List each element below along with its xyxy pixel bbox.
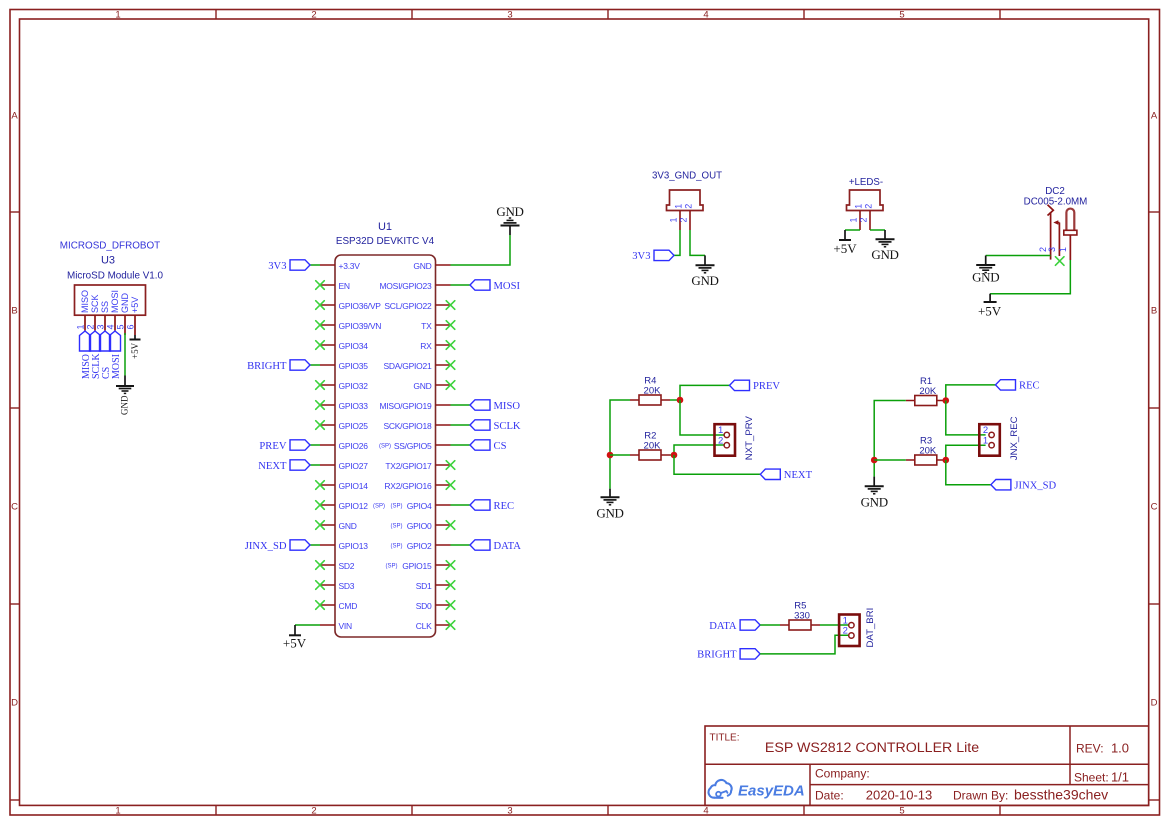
svg-text:GPIO14: GPIO14: [339, 481, 369, 491]
no-connect X on U1 RX right: [446, 341, 455, 350]
svg-text:SCLK: SCLK: [494, 421, 521, 432]
U3 pin 3 SS: [96, 301, 111, 331]
wire U1 GPIO13 to flag: [310, 544, 320, 546]
svg-text:MISO: MISO: [494, 401, 521, 412]
no-connect X on U1 GPIO0 right: [446, 521, 455, 530]
U1 left pin GPIO34: [320, 341, 368, 351]
svg-text:1/1: 1/1: [1111, 770, 1129, 785]
wire R4 junction to NXT_PRV pin1: [680, 400, 724, 435]
net label CS on U3 pin 3: [100, 331, 112, 379]
svg-text:3V3: 3V3: [268, 261, 286, 272]
U3 pin 2 SCK: [86, 294, 101, 330]
svg-text:TX: TX: [421, 321, 432, 331]
wire DC2 pin1 to +5V: [990, 260, 1070, 294]
svg-text:GPIO26: GPIO26: [339, 441, 369, 451]
wire rail to R2: [610, 454, 630, 456]
svg-text:+5V: +5V: [978, 303, 1002, 318]
svg-text:DAT_BRI: DAT_BRI: [865, 608, 876, 648]
wire 3V3_GND_OUT pin1 to 3V3 flag: [674, 230, 680, 255]
svg-text:2: 2: [679, 217, 689, 222]
no-connect X on U1 CMD: [316, 601, 325, 610]
U1 left pin GPIO33: [320, 401, 368, 411]
wire R5 to DAT_BRI pin1: [820, 624, 849, 626]
svg-text:(SP): (SP): [379, 444, 391, 450]
junction R1 right: [943, 397, 950, 404]
no-connect X on U1 RX2/GPIO16 right: [446, 481, 455, 490]
junction rail R3: [871, 457, 878, 464]
svg-text:GPIO12: GPIO12: [339, 501, 369, 511]
wire U1 SCK/GPIO18 to flag: [451, 424, 471, 426]
svg-text:Drawn By:: Drawn By:: [953, 789, 1008, 803]
svg-text:MISO: MISO: [80, 290, 90, 313]
U1 right pin SD1: [416, 581, 451, 591]
svg-text:NEXT: NEXT: [258, 461, 287, 472]
junction rail R2: [607, 452, 614, 459]
wire U1 GPIO27 to flag: [310, 464, 320, 466]
svg-text:EasyEDA: EasyEDA: [738, 782, 805, 799]
wire U1 MISO/GPIO19 to flag: [451, 404, 471, 406]
svg-text:DATA: DATA: [494, 541, 522, 552]
no-connect X on U1 GPIO15 right: [446, 561, 455, 570]
svg-text:A: A: [1151, 110, 1158, 121]
connector +LEDS-: [847, 177, 884, 230]
svg-text:GND: GND: [972, 270, 999, 285]
svg-text:1.0: 1.0: [1111, 741, 1129, 756]
svg-text:(SP): (SP): [373, 504, 385, 510]
connector NXT_PRV: [715, 416, 756, 461]
no-connect X on U1 TX right: [446, 321, 455, 330]
U1 right pin CLK: [416, 621, 451, 631]
svg-text:6: 6: [126, 324, 136, 329]
svg-text:MOSI/GPIO23: MOSI/GPIO23: [379, 281, 432, 291]
svg-text:Company:: Company:: [815, 767, 870, 781]
no-connect X on U1 GPIO12: [316, 501, 325, 510]
U1 right pin TX: [421, 321, 450, 331]
U1 right pin SDA/GPIO21: [383, 361, 450, 371]
U1 right pin GPIO2: [391, 541, 451, 551]
net label SCLK on U3 pin 2: [90, 331, 102, 379]
svg-text:Date:: Date:: [815, 789, 844, 803]
svg-text:2020-10-13: 2020-10-13: [866, 788, 933, 803]
svg-text:ESP32D DEVKITC V4: ESP32D DEVKITC V4: [336, 236, 435, 247]
U1 right pin GND: [413, 261, 450, 271]
no-connect X on U1 SD2: [316, 561, 325, 570]
+5V power symbol on U3 pin6: [130, 335, 141, 359]
svg-text:C: C: [11, 501, 18, 512]
U1 right pin SCL/GPIO22: [384, 301, 450, 311]
U1 left pin GPIO25: [320, 421, 368, 431]
svg-text:JINX_SD: JINX_SD: [1014, 481, 1056, 492]
svg-text:3V3: 3V3: [632, 251, 650, 262]
resistor R5 330: [780, 600, 820, 630]
microsd U3 body: [75, 285, 146, 315]
no-connect X on U1 GND: [316, 521, 325, 530]
svg-text:20K: 20K: [644, 440, 662, 451]
svg-text:4: 4: [703, 10, 708, 21]
wire U1 GPIO4 to flag: [451, 504, 471, 506]
svg-text:GPIO39/VN: GPIO39/VN: [339, 321, 382, 331]
no-connect X on U1 GPIO33: [316, 401, 325, 410]
svg-text:GPIO34: GPIO34: [339, 341, 369, 351]
svg-text:REC: REC: [1019, 381, 1040, 392]
no-connect X on U1 TX2/GPIO17 right: [446, 461, 455, 470]
svg-text:SS/GPIO5: SS/GPIO5: [394, 441, 432, 451]
wire DC2 pin2 to ground: [986, 255, 1051, 257]
wire R1 junction to JNX_REC pin2: [946, 401, 986, 435]
svg-text:5: 5: [899, 10, 904, 21]
U1 left pin GPIO35: [320, 361, 368, 371]
DC2 pin 3 contact: [1047, 220, 1059, 256]
wire BRIGHT to DAT_BRI pin2: [760, 635, 849, 654]
wire rail to R3: [874, 459, 906, 461]
net flag DATA: [470, 540, 521, 552]
svg-text:1: 1: [854, 204, 864, 209]
net flag 3V3: [268, 260, 310, 272]
svg-text:DC005-2.0MM: DC005-2.0MM: [1024, 197, 1088, 208]
svg-text:+5V: +5V: [130, 342, 140, 359]
svg-text:U1: U1: [378, 221, 392, 233]
no-connect X on U1 SD3: [316, 581, 325, 590]
svg-text:MICROSD_DFROBOT: MICROSD_DFROBOT: [60, 240, 160, 251]
junction R2 right: [671, 452, 678, 459]
svg-text:CLK: CLK: [416, 621, 432, 631]
net flag BRIGHT at DAT_BRI: [697, 649, 760, 661]
svg-text:BRIGHT: BRIGHT: [697, 650, 737, 661]
no-connect X on U1 CLK right: [446, 621, 455, 630]
connector 3V3_GND_OUT: [652, 171, 722, 230]
svg-text:1: 1: [1058, 247, 1068, 252]
svg-text:GPIO33: GPIO33: [339, 401, 369, 411]
U1 right pin RX: [420, 341, 450, 351]
svg-text:SD1: SD1: [416, 581, 432, 591]
ground symbol below 3V3_GND_OUT: [691, 255, 718, 288]
svg-text:2: 2: [86, 324, 96, 329]
svg-text:3: 3: [507, 806, 512, 817]
net flag REC at R1: [996, 380, 1040, 392]
svg-text:2: 2: [311, 10, 316, 21]
junction R3 right: [943, 457, 950, 464]
svg-text:GPIO15: GPIO15: [402, 561, 432, 571]
wire ground rail left group: [610, 400, 630, 489]
svg-text:MISO/GPIO19: MISO/GPIO19: [379, 401, 432, 411]
svg-text:GPIO27: GPIO27: [339, 461, 369, 471]
svg-text:MOSI: MOSI: [111, 354, 122, 379]
svg-text:SCK: SCK: [90, 294, 100, 313]
svg-text:GPIO35: GPIO35: [339, 361, 369, 371]
svg-text:GPIO4: GPIO4: [407, 501, 432, 511]
net flag CS: [470, 440, 507, 452]
resistor R1 20K: [906, 376, 946, 406]
wire DATA to R5: [760, 624, 780, 626]
svg-text:2: 2: [311, 806, 316, 817]
svg-text:MOSI: MOSI: [110, 290, 120, 313]
svg-text:GND: GND: [413, 261, 431, 271]
svg-text:Sheet:: Sheet:: [1074, 771, 1109, 785]
wire +LEDS- pin2 to ground: [870, 229, 885, 231]
net flag JINX_SD at R3: [991, 480, 1057, 492]
net flag NEXT: [258, 460, 310, 472]
ground symbol below U3: [116, 376, 134, 416]
resistor R4 20K: [630, 375, 670, 405]
ground symbol at +LEDS-: [871, 230, 898, 262]
resistor R3 20K: [906, 435, 946, 465]
svg-text:3: 3: [1047, 247, 1057, 252]
svg-text:GND: GND: [339, 521, 357, 531]
U1 left pin SD2: [320, 561, 355, 571]
svg-text:GND: GND: [496, 204, 523, 219]
svg-text:1: 1: [115, 806, 120, 817]
svg-text:TITLE:: TITLE:: [710, 733, 740, 744]
U1 left pin SD3: [320, 581, 355, 591]
U1 left pin GPIO26: [320, 441, 368, 451]
wire U1 GPIO2 to flag: [451, 544, 471, 546]
svg-text:NEXT: NEXT: [784, 470, 813, 481]
svg-text:3V3_GND_OUT: 3V3_GND_OUT: [652, 171, 722, 182]
svg-text:GND: GND: [861, 495, 888, 510]
svg-text:MicroSD Module V1.0: MicroSD Module V1.0: [67, 270, 164, 281]
wire 3V3_GND_OUT pin2 to ground: [690, 230, 705, 255]
svg-text:3: 3: [96, 324, 106, 329]
junction R4 right: [677, 397, 684, 404]
U1 right pin GPIO0: [391, 521, 451, 531]
no-connect X on DC2 pin 3: [1055, 257, 1064, 266]
svg-text:1: 1: [115, 10, 120, 21]
svg-text:GND: GND: [120, 293, 130, 314]
svg-text:REV:: REV:: [1076, 742, 1104, 756]
U1 left pin GPIO12: [320, 501, 385, 511]
svg-text:RX: RX: [420, 341, 432, 351]
svg-text:GPIO25: GPIO25: [339, 421, 369, 431]
wire R2 junction to NEXT: [674, 455, 760, 474]
svg-text:CMD: CMD: [339, 601, 358, 611]
svg-text:1: 1: [674, 204, 684, 209]
svg-text:U3: U3: [101, 254, 115, 266]
wire U1 GND to ground symbol: [451, 235, 511, 265]
net flag PREV: [259, 440, 310, 452]
svg-text:GND: GND: [413, 381, 431, 391]
U1 left pin GPIO14: [320, 481, 368, 491]
U1 left pin GPIO36/VP: [320, 301, 381, 311]
wire U3 pin5 to ground: [124, 333, 126, 376]
U3 pin 4 MOSI: [106, 290, 121, 331]
net flag MOSI: [470, 280, 520, 292]
U1 left pin +3.3V: [320, 261, 360, 271]
no-connect X on U1 SDA/GPIO21 right: [446, 361, 455, 370]
svg-text:2: 2: [843, 626, 848, 637]
no-connect X on U1 SD1 right: [446, 581, 455, 590]
svg-text:SDA/GPIO21: SDA/GPIO21: [383, 361, 432, 371]
U1 left pin GPIO32: [320, 381, 368, 391]
svg-text:1: 1: [983, 435, 988, 446]
U3 pin 1 MISO: [76, 290, 91, 331]
svg-text:GPIO32: GPIO32: [339, 381, 369, 391]
wire R4 right to PREV: [670, 385, 730, 400]
net flag SCLK: [470, 420, 521, 432]
wire R3 junction to JINX_SD: [946, 460, 991, 485]
ground symbol above U1: [496, 204, 523, 235]
U1 right pin SS/GPIO5: [379, 441, 451, 451]
U1 left pin GPIO27: [320, 461, 368, 471]
net flag BRIGHT: [247, 360, 310, 372]
svg-text:TX2/GPIO17: TX2/GPIO17: [385, 461, 432, 471]
svg-text:4: 4: [106, 324, 116, 329]
svg-text:GPIO2: GPIO2: [407, 541, 432, 551]
svg-text:+5V: +5V: [833, 241, 857, 256]
svg-text:5: 5: [116, 324, 126, 329]
U1 right pin SCK/GPIO18: [383, 421, 450, 431]
svg-text:SD0: SD0: [416, 601, 432, 611]
svg-text:JNX_REC: JNX_REC: [1009, 416, 1020, 460]
svg-text:MOSI: MOSI: [494, 281, 521, 292]
U1 left pin GPIO13: [320, 541, 368, 551]
U1 right pin RX2/GPIO16: [384, 481, 450, 491]
no-connect X on U1 GPIO14: [316, 481, 325, 490]
svg-text:PREV: PREV: [259, 441, 286, 452]
no-connect X on U1 SD0 right: [446, 601, 455, 610]
U1 right pin TX2/GPIO17: [385, 461, 450, 471]
svg-text:3: 3: [507, 10, 512, 21]
ground symbol left of DC2: [972, 256, 999, 285]
svg-text:+3.3V: +3.3V: [339, 261, 361, 271]
net flag REC: [470, 500, 514, 512]
svg-text:GPIO13: GPIO13: [339, 541, 369, 551]
ground symbol below rail right group: [861, 477, 888, 510]
svg-text:2: 2: [684, 204, 694, 209]
svg-text:PREV: PREV: [753, 381, 780, 392]
svg-text:330: 330: [794, 610, 810, 621]
net flag 3V3 at connector: [632, 250, 674, 262]
U1 right pin GPIO4: [391, 501, 451, 511]
connector DAT_BRI: [839, 608, 876, 648]
no-connect X on U1 SCL/GPIO22 right: [446, 301, 455, 310]
svg-text:SD2: SD2: [339, 561, 355, 571]
net flag PREV at R4: [730, 380, 781, 392]
U1 left pin GPIO39/VN: [320, 321, 381, 331]
svg-text:B: B: [11, 305, 17, 316]
svg-text:REC: REC: [494, 501, 515, 512]
wire U1 MOSI/GPIO23 to flag: [451, 284, 471, 286]
svg-text:(SP): (SP): [391, 544, 403, 550]
svg-text:B: B: [1151, 305, 1157, 316]
wire R3 right to JNX_REC pin1: [946, 445, 986, 460]
svg-text:CS: CS: [494, 441, 507, 452]
no-connect X on U1 GPIO34: [316, 341, 325, 350]
no-connect X on U1 GND right: [446, 381, 455, 390]
U1 right pin MISO/GPIO19: [379, 401, 450, 411]
no-connect X on U1 GPIO36/VP: [316, 301, 325, 310]
U3 pin 5 GND: [116, 293, 131, 336]
svg-text:D: D: [11, 697, 18, 708]
svg-text:SS: SS: [100, 301, 110, 313]
svg-text:4: 4: [703, 806, 708, 817]
svg-text:JINX_SD: JINX_SD: [245, 541, 287, 552]
svg-text:D: D: [1151, 697, 1158, 708]
U1 left pin EN: [320, 281, 350, 291]
U1 right pin GND: [413, 381, 450, 391]
svg-text:2: 2: [859, 217, 869, 222]
DC2 pin 1 barrel: [1058, 209, 1077, 260]
wire U1 SS/GPIO5 to flag: [451, 444, 471, 446]
net flag NEXT at R2: [760, 469, 812, 481]
svg-text:(SP): (SP): [386, 564, 398, 570]
svg-text:GND: GND: [596, 506, 623, 521]
svg-text:SCL/GPIO22: SCL/GPIO22: [384, 301, 432, 311]
no-connect X on U1 EN: [316, 281, 325, 290]
svg-text:BRIGHT: BRIGHT: [247, 361, 287, 372]
wire ground rail right group: [874, 401, 906, 477]
svg-text:ESP WS2812 CONTROLLER Lite: ESP WS2812 CONTROLLER Lite: [765, 740, 979, 756]
DC2 pin 2 switch arm: [1038, 205, 1053, 260]
U1 right pin GPIO15: [386, 561, 451, 571]
resistor R2 20K: [630, 430, 670, 460]
U1 right pin MOSI/GPIO23: [379, 281, 450, 291]
+5V power symbol at +LEDS-: [833, 230, 857, 256]
svg-text:SCK/GPIO18: SCK/GPIO18: [383, 421, 432, 431]
svg-text:GND: GND: [691, 273, 718, 288]
wire +LEDS- pin1 to +5V: [845, 229, 860, 231]
net label MISO on U3 pin 1: [80, 331, 92, 379]
svg-text:1: 1: [76, 324, 86, 329]
wire U1 GPIO35 to flag: [310, 364, 320, 366]
EasyEDA logo: [709, 780, 805, 799]
svg-text:20K: 20K: [919, 445, 937, 456]
svg-text:1: 1: [669, 217, 679, 222]
svg-text:A: A: [11, 110, 18, 121]
svg-text:2: 2: [718, 435, 723, 446]
no-connect X on U1 GPIO25: [316, 421, 325, 430]
U1 left pin GND: [320, 521, 357, 531]
no-connect X on U1 GPIO39/VN: [316, 321, 325, 330]
svg-text:(SP): (SP): [391, 524, 403, 530]
chip U1 ESP32 body: [335, 255, 436, 637]
ground symbol below rail left group: [596, 489, 623, 521]
svg-text:RX2/GPIO16: RX2/GPIO16: [384, 481, 432, 491]
U1 left pin VIN: [320, 621, 352, 631]
net flag JINX_SD: [245, 540, 310, 552]
net flag DATA at R5: [709, 620, 760, 632]
svg-text:+LEDS-: +LEDS-: [849, 177, 883, 188]
svg-text:20K: 20K: [644, 385, 662, 396]
svg-text:NXT_PRV: NXT_PRV: [744, 416, 755, 461]
U3 pin 6 +5V: [126, 297, 141, 335]
svg-text:VIN: VIN: [339, 621, 353, 631]
svg-text:GND: GND: [871, 247, 898, 262]
svg-text:GND: GND: [120, 395, 130, 415]
wire U1 +3.3V to flag: [310, 264, 320, 266]
wire U1 VIN to +5V: [295, 624, 320, 626]
svg-text:20K: 20K: [919, 386, 937, 397]
+5V power symbol at U1 VIN: [283, 625, 307, 650]
svg-text:C: C: [1151, 501, 1158, 512]
title block frame: [705, 726, 1149, 805]
wire R2 right to NXT_PRV pin2: [670, 445, 724, 455]
svg-text:(SP): (SP): [391, 504, 403, 510]
svg-text:2: 2: [864, 204, 874, 209]
svg-text:SD3: SD3: [339, 581, 355, 591]
svg-text:GPIO36/VP: GPIO36/VP: [339, 301, 382, 311]
net label MOSI on U3 pin 4: [110, 331, 122, 379]
svg-text:EN: EN: [339, 281, 350, 291]
connector JNX_REC: [979, 416, 1020, 460]
no-connect X on U1 GPIO32: [316, 381, 325, 390]
+5V power symbol below DC2: [978, 294, 1002, 319]
svg-text:+5V: +5V: [130, 297, 140, 313]
U1 left pin CMD: [320, 601, 357, 611]
net flag MISO: [470, 400, 520, 412]
svg-text:5: 5: [899, 806, 904, 817]
svg-text:bessthe39chev: bessthe39chev: [1014, 787, 1108, 803]
svg-text:1: 1: [849, 217, 859, 222]
